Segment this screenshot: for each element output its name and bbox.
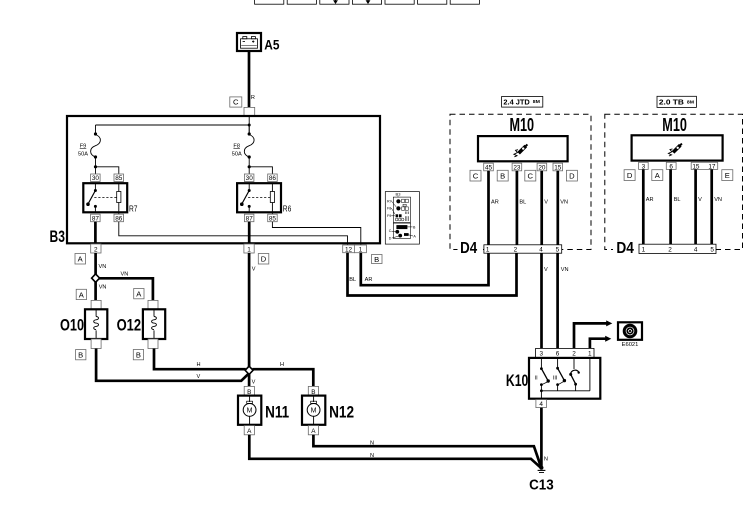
M10 pin 3 (639, 162, 649, 169)
svg-text:50A: 50A (78, 152, 88, 158)
glow plugs M10 box (478, 136, 568, 161)
wire drop to fuse F9 (95, 125, 97, 134)
wire R7-86 to exit 12 (119, 222, 348, 246)
svg-text:M: M (247, 407, 253, 414)
svg-text:N: N (370, 441, 374, 447)
connector A label box (O10) (76, 289, 86, 299)
svg-text:1: 1 (588, 351, 592, 358)
svg-text:BL: BL (674, 197, 681, 203)
B3 exit pin 2 (91, 244, 101, 253)
glow plug icon (514, 144, 528, 156)
battery A5 box (237, 33, 261, 51)
top nav box 5 (385, 0, 414, 4)
svg-text:86: 86 (269, 175, 277, 182)
svg-text:VN: VN (560, 200, 568, 206)
connector B label box (372, 255, 383, 264)
svg-text:5: 5 (710, 246, 714, 253)
svg-text:F8: F8 (233, 143, 240, 149)
top nav box 3 (320, 0, 349, 4)
legend dot F8 (396, 206, 400, 210)
svg-text:50A: 50A (232, 152, 242, 158)
relay R7 box (83, 183, 127, 212)
pump N11 motor (249, 396, 251, 402)
K10 internal bus (541, 390, 590, 392)
battery A5 icon (241, 37, 258, 49)
wire AR pin45 to D4 (487, 171, 490, 245)
svg-text:II: II (535, 376, 539, 382)
wire internal from C down (248, 115, 250, 134)
svg-text:VN: VN (561, 267, 569, 273)
wire N from N12 to C13 (313, 435, 541, 468)
wire VN pin15 to D4 (556, 171, 559, 245)
svg-text:VN: VN (714, 197, 722, 203)
N12 pin A (308, 426, 318, 435)
B3 exit pin 1 (244, 244, 254, 253)
M10 pin 15 (553, 163, 563, 171)
svg-text:C13: C13 (529, 477, 554, 493)
svg-text:N: N (544, 456, 548, 462)
svg-text:M10: M10 (510, 114, 535, 135)
wire N K10 to C13 (540, 408, 543, 469)
svg-text:87: 87 (92, 215, 100, 222)
svg-text:2.0 TB: 2.0 TB (659, 100, 684, 107)
svg-text:D: D (261, 255, 267, 264)
svg-text:V: V (197, 374, 201, 380)
svg-text:B: B (136, 351, 141, 360)
connector D label box (566, 170, 577, 181)
relay R7 pin 86 (114, 214, 124, 222)
svg-text:4: 4 (694, 246, 698, 253)
svg-text:M: M (311, 407, 317, 414)
svg-text:2: 2 (94, 246, 98, 253)
wire V from O10 (96, 349, 249, 381)
wire VN from B3 pin2 down (94, 253, 97, 275)
O10 top pin box (91, 300, 101, 309)
svg-text:2.4 JTD: 2.4 JTD (503, 99, 529, 106)
N11 pin B (244, 386, 254, 395)
svg-text:VN: VN (99, 264, 107, 270)
svg-text:III: III (553, 376, 558, 382)
connector D4 strip left (484, 245, 562, 253)
legend relay footprints (395, 199, 408, 221)
svg-text:30: 30 (92, 175, 100, 182)
svg-text:2: 2 (572, 351, 576, 358)
svg-text:E: E (725, 171, 730, 180)
svg-text:87: 87 (246, 215, 254, 222)
node below fuse F9 (95, 157, 97, 174)
variant 2.0 TB dashed frame (605, 114, 743, 249)
relay R6 dashed link (248, 196, 270, 198)
top nav box 4 arrow (367, 0, 369, 1)
M10 pins 15 17 (691, 162, 718, 169)
svg-text:4: 4 (539, 401, 543, 408)
legend dot R7 (396, 199, 400, 203)
svg-text:V: V (698, 197, 702, 203)
wire V down to N11 (248, 374, 251, 387)
svg-text:VN: VN (121, 272, 129, 278)
legend upper box (393, 197, 410, 222)
legend squares F9 (396, 214, 399, 217)
svg-text:O12: O12 (117, 317, 142, 335)
svg-text:R6: R6 (283, 203, 292, 213)
wire internal horizontal to left fuse (96, 124, 250, 126)
svg-text:15: 15 (692, 163, 700, 170)
wire V pin20 to D4 (540, 171, 543, 245)
node junction top (248, 124, 251, 127)
relay R7 pin 85 (114, 174, 124, 182)
pump N11 box (238, 396, 261, 425)
wire R7-87 to exit 2 (94, 222, 97, 245)
M10 pin 45 (484, 163, 494, 171)
relay R7 switch (94, 183, 96, 190)
wire R6-87 to exit 1 (248, 222, 251, 245)
wire N from N11 to C13 (249, 435, 541, 468)
svg-text:F9: F9 (80, 143, 87, 149)
ground C13 (539, 466, 543, 470)
wire jumper to pin 86 (249, 167, 272, 174)
relay R6 box (237, 183, 281, 212)
svg-text:C: C (473, 172, 479, 181)
svg-text:F9: F9 (387, 214, 391, 218)
wire VN down to O10 (94, 282, 97, 301)
K10 thermal contact pin2 (573, 358, 575, 369)
svg-text:V: V (544, 267, 548, 273)
relay K10 pin strip (536, 348, 594, 358)
connector E label box (722, 170, 733, 181)
wire H from O12 (154, 349, 246, 370)
svg-text:B3: B3 (396, 191, 402, 196)
svg-text:23: 23 (513, 164, 521, 171)
connector A label box (O12) (134, 289, 144, 299)
svg-text:D: D (389, 237, 392, 241)
wire VN pin17 to D4 (710, 169, 713, 244)
svg-text:C: C (233, 98, 239, 107)
wire VN D4 to K10 (556, 253, 559, 348)
top nav box 1 (cut off) (255, 0, 284, 4)
connector A label box (75, 254, 86, 265)
connector A label box (652, 170, 663, 181)
svg-text:1: 1 (486, 247, 490, 254)
ground point E6021 box (618, 322, 642, 340)
legend inset outline (385, 192, 419, 245)
connector D label box (258, 254, 269, 265)
svg-text:C: C (528, 172, 534, 181)
svg-text:N11: N11 (265, 404, 289, 422)
wire R6-85 to exit 1b (272, 222, 360, 246)
svg-text:R: R (251, 95, 255, 101)
svg-text:H: H (280, 362, 284, 368)
svg-text:A: A (247, 428, 252, 435)
wire BL B3 to D4 (348, 253, 517, 296)
svg-text:3: 3 (540, 351, 544, 358)
legend dot D (398, 234, 402, 238)
relay K10 box (529, 358, 600, 399)
wire battery to B3 (R) (248, 51, 251, 108)
O12 bottom pin box (148, 339, 158, 349)
svg-text:B3: B3 (50, 227, 65, 246)
variant 2.4 JTD dashed frame (450, 114, 591, 249)
svg-text:O10: O10 (60, 317, 84, 335)
label D4 left (458, 241, 484, 255)
glow plugs M10 box 2 (632, 135, 723, 160)
svg-text:30: 30 (246, 175, 254, 182)
connector D label box (624, 170, 635, 181)
connector D4 strip right (639, 244, 716, 253)
pump N12 motor (313, 396, 315, 402)
connector C label box 2 (525, 170, 536, 181)
connector B label box (O12) (133, 350, 143, 360)
svg-text:86: 86 (115, 215, 123, 222)
top nav box 3 arrow (335, 0, 337, 1)
relay R6 coil (271, 183, 273, 191)
relay R6 pin 86 (268, 174, 278, 182)
node below fuse F8 (248, 157, 250, 174)
wire V D4 to K10 (540, 253, 543, 348)
svg-text:20: 20 (538, 164, 546, 171)
svg-text:2: 2 (668, 246, 672, 253)
legend lower box (393, 223, 410, 238)
heater O12 element (153, 309, 155, 316)
svg-text:BL: BL (349, 277, 356, 283)
B3 exit pin 12 (343, 245, 355, 253)
svg-text:45: 45 (485, 164, 493, 171)
top nav box 6 (418, 0, 447, 4)
relay R6 pin 30 (244, 174, 254, 182)
svg-text:D: D (627, 171, 633, 180)
M10 pin 23 (512, 163, 522, 171)
legend rect A (404, 233, 409, 236)
connector B label box (O10) (76, 350, 86, 360)
svg-text:B: B (78, 351, 83, 360)
svg-text:6: 6 (669, 163, 673, 170)
wire K10 pin1 to E6021 (590, 339, 606, 349)
svg-text:2: 2 (514, 247, 518, 254)
relay R7 pin 30 (91, 174, 101, 182)
svg-text:R7: R7 (129, 203, 138, 213)
relay R7 dashed link (94, 196, 116, 198)
wire V pin15 to D4 (694, 169, 697, 244)
svg-text:AR: AR (646, 197, 654, 203)
connector C label box (470, 170, 481, 181)
svg-text:B: B (374, 255, 379, 264)
relay R6 pin 87 (244, 214, 254, 222)
connector C label box (230, 97, 242, 107)
wire V from B3 pin1 down (248, 253, 251, 367)
svg-text:N: N (370, 453, 374, 459)
glow plug icon 2 (668, 144, 682, 156)
K10 contact III (557, 358, 559, 368)
svg-text:N12: N12 (329, 404, 354, 422)
wire AR pin3 to D4 (642, 169, 645, 244)
svg-text:V: V (544, 200, 548, 206)
top nav box 4 (352, 0, 381, 4)
svg-text:F8: F8 (387, 206, 391, 210)
N12 pin B (308, 386, 318, 395)
relay R7 pin 87 (91, 214, 101, 222)
node splice diamond mid (245, 366, 253, 374)
fuse F9 (94, 132, 97, 135)
connector B label box (497, 170, 508, 181)
relay R7 coil (118, 183, 120, 191)
pin box at B3 top (244, 107, 255, 115)
B3 exit pin 1b (354, 245, 366, 253)
variant label 2.4 JTD (502, 97, 543, 108)
svg-text:H: H (197, 362, 201, 368)
relay R6 pin 85 (268, 214, 278, 222)
svg-text:AR: AR (365, 277, 373, 283)
fuse F8 (248, 125, 250, 134)
svg-text:1: 1 (642, 246, 646, 253)
svg-text:8M: 8M (687, 99, 695, 104)
svg-text:V: V (252, 267, 256, 273)
wire AR B3 to D4 (361, 253, 489, 286)
svg-text:C: C (389, 229, 392, 233)
legend bar B (396, 225, 407, 229)
arrow to E6021 lower (605, 336, 611, 342)
svg-text:K10: K10 (506, 371, 528, 390)
svg-text:D4: D4 (460, 240, 477, 257)
svg-text:M10: M10 (662, 114, 687, 135)
svg-text:V: V (252, 380, 256, 386)
heater O10 element (95, 309, 97, 316)
svg-text:4: 4 (539, 247, 543, 254)
svg-text:A: A (311, 428, 316, 435)
heater O10 box (85, 309, 107, 339)
svg-text:8M: 8M (533, 99, 541, 104)
svg-text:AR: AR (491, 200, 499, 206)
svg-text:BL: BL (519, 200, 526, 206)
arrow to E6021 upper (606, 320, 612, 326)
K10 contact II (540, 358, 542, 369)
wire BL pin23 to D4 (516, 171, 519, 245)
svg-text:15: 15 (554, 164, 562, 171)
svg-text:VN: VN (99, 284, 107, 290)
M10 pin 6 (666, 162, 676, 169)
K10 pin 4 (536, 400, 547, 408)
svg-text:E6021: E6021 (622, 342, 639, 348)
wire K10 pin2 to E6021 (574, 323, 607, 348)
svg-text:1: 1 (247, 246, 251, 253)
wire BL pin6 to D4 (669, 169, 672, 244)
svg-text:R7: R7 (387, 199, 392, 203)
svg-text:6: 6 (556, 351, 560, 358)
pump N12 box (302, 396, 325, 425)
N11 pin A (244, 426, 254, 435)
svg-text:5: 5 (556, 247, 560, 254)
label D4 right (613, 241, 638, 255)
svg-text:85: 85 (115, 175, 123, 182)
svg-text:3: 3 (642, 163, 646, 170)
top nav box 7 (450, 0, 479, 4)
M10 pin 20 (537, 163, 547, 171)
E6021 emblem (624, 325, 636, 337)
node splice diamond (92, 274, 100, 282)
svg-text:D: D (569, 172, 575, 181)
heater O12 box (143, 309, 165, 339)
variant label 2.0 TB (657, 96, 696, 107)
svg-text:1: 1 (359, 246, 363, 253)
fuse box B3 outline (67, 116, 380, 243)
svg-text:85: 85 (269, 215, 277, 222)
svg-text:D4: D4 (616, 240, 634, 257)
top nav box 2 (287, 0, 316, 4)
svg-text:12: 12 (345, 246, 353, 253)
wire jumper to pin 85 (96, 167, 119, 174)
O10 bottom pin box (91, 339, 101, 349)
svg-text:B: B (500, 172, 505, 181)
svg-text:A5: A5 (264, 37, 279, 53)
wire H to N12 (252, 369, 313, 386)
svg-text:17: 17 (708, 163, 716, 170)
O12 top pin box (148, 300, 158, 309)
relay R6 switch (248, 183, 250, 190)
wire VN branch to O12 (98, 278, 153, 300)
